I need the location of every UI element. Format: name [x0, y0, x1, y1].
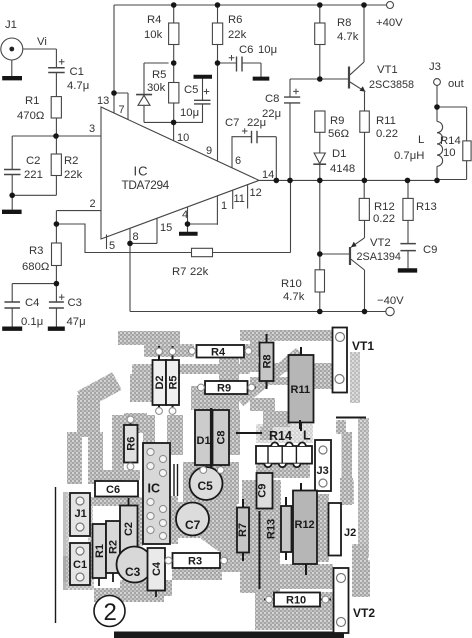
wire trace R7 C9 R13 zone — [242, 480, 281, 552]
node rail VT1 — [361, 2, 367, 8]
svg-text:R14: R14 — [440, 135, 461, 147]
svg-text:47μ: 47μ — [67, 316, 86, 328]
wire trace left strip b — [88, 432, 103, 484]
node out L — [434, 178, 440, 184]
wire trace left edge J1 — [63, 492, 69, 582]
svg-text:R7: R7 — [237, 523, 249, 537]
wire rail drop to pins 13/7 — [113, 5, 115, 93]
wire trace below coil — [256, 464, 310, 478]
wire trace left of R8 top — [250, 340, 261, 357]
resistor R2 — [12, 136, 61, 195]
svg-text:IC: IC — [134, 164, 149, 179]
figure number 2 — [94, 596, 125, 627]
wire VT1 base — [290, 78, 348, 80]
capacitor C6 pcb — [95, 481, 138, 497]
resistor R3 — [52, 224, 62, 284]
terminal +40V — [387, 2, 394, 9]
wire trace R12 bottom to R10 — [280, 564, 333, 589]
PCB components — [70, 328, 375, 634]
terminal -40V — [386, 307, 394, 315]
capacitor C1 — [48, 59, 64, 97]
svg-text:C8: C8 — [216, 430, 228, 444]
transistor VT1 — [349, 5, 365, 111]
wire pcb ground bar — [114, 632, 344, 638]
svg-text:10: 10 — [443, 147, 456, 159]
svg-text:D1: D1 — [332, 148, 346, 160]
resistor R4 — [169, 5, 179, 63]
transistor VT2 — [350, 220, 365, 311]
svg-text:J2: J2 — [344, 527, 356, 539]
svg-text:J3: J3 — [317, 465, 329, 477]
svg-text:R3: R3 — [29, 245, 43, 257]
svg-text:R13: R13 — [266, 519, 278, 539]
svg-text:C1: C1 — [73, 559, 87, 571]
svg-text:R1: R1 — [94, 544, 106, 558]
wire trace R4 right end — [240, 344, 258, 365]
resistor R10 — [315, 254, 324, 312]
wire trace band3 R8 R11 — [250, 377, 332, 385]
pin number labels — [89, 95, 274, 252]
svg-text:R12: R12 — [374, 201, 395, 213]
wire trace IC D1 gap — [167, 415, 183, 455]
resistor R13 pcb — [266, 497, 292, 560]
svg-text:R12: R12 — [295, 519, 315, 531]
resistor R7 — [192, 180, 291, 256]
transistor VT2 pcb — [334, 568, 376, 633]
capacitor C8 pcb — [211, 408, 229, 467]
pin5 stub — [106, 235, 108, 250]
wire trace right strip widen — [352, 544, 368, 570]
node pin2 — [54, 221, 60, 227]
connector J3 pcb — [315, 440, 331, 491]
wire pcb R1 lead — [98, 578, 100, 586]
node rail R4 — [171, 2, 177, 8]
resistor R7 pcb — [237, 499, 249, 561]
svg-text:1: 1 — [221, 200, 227, 212]
wire pcb border left — [55, 487, 57, 623]
node R8-R9 — [317, 76, 323, 82]
diode D2 pcb — [153, 346, 167, 414]
svg-text:22μ: 22μ — [262, 108, 281, 120]
svg-text:J1: J1 — [5, 19, 17, 31]
svg-text:VT2: VT2 — [353, 606, 375, 620]
resistor R14 — [437, 107, 471, 180]
wire pin2 — [56, 211, 101, 224]
svg-text:2SA1394: 2SA1394 — [357, 251, 401, 263]
svg-text:D2: D2 — [154, 375, 166, 389]
svg-text:0.7μH: 0.7μH — [394, 150, 424, 162]
svg-text:12: 12 — [250, 187, 262, 199]
wire trace bottom left band — [94, 588, 164, 602]
wire trace right strip — [358, 418, 369, 558]
wire pcb IC right lead a — [173, 464, 175, 496]
svg-text:13: 13 — [97, 95, 109, 107]
svg-text:4.7μ: 4.7μ — [67, 80, 89, 92]
wire pcb left vertical — [259, 511, 261, 589]
svg-text:0.22: 0.22 — [373, 213, 395, 225]
wire pin3 node left — [12, 136, 56, 170]
wire output node pin14 — [259, 179, 437, 181]
svg-text:R2: R2 — [108, 540, 120, 554]
node out C8 — [287, 178, 293, 184]
svg-text:0.1μ: 0.1μ — [21, 316, 43, 328]
wire trace left arm — [77, 395, 100, 437]
IC pcb — [143, 443, 170, 544]
wire trace right of J3 — [342, 432, 353, 505]
svg-text:R4: R4 — [147, 14, 161, 26]
wire trace VT2 top right — [352, 560, 370, 597]
svg-text:C9: C9 — [423, 244, 437, 256]
node pin10 — [171, 120, 177, 126]
wire trace C7 diag to R3 — [205, 533, 240, 558]
svg-text:C6: C6 — [239, 44, 253, 56]
wire trace bottom left corner — [63, 556, 94, 590]
inductor L pcb — [256, 420, 312, 467]
capacitor C9 pcb — [257, 473, 273, 509]
wire trace below C3 C4 — [120, 580, 172, 596]
svg-text:10μ: 10μ — [258, 44, 277, 56]
resistor R12 — [359, 180, 369, 220]
wire trace toward R14 — [263, 411, 290, 427]
svg-text:4148: 4148 — [330, 163, 355, 175]
capacitor C7 pcb — [176, 503, 209, 536]
wire trace D2 R5 top patch — [144, 344, 194, 357]
svg-text:0.22: 0.22 — [376, 128, 398, 140]
resistor R6 — [212, 5, 222, 161]
wire trace below R3 — [172, 568, 222, 580]
capacitor C5 — [194, 77, 213, 123]
wire pcb IC right lead b — [177, 464, 179, 496]
wire trace above D1 C8 — [191, 386, 239, 410]
resistor R12 pcb — [293, 483, 317, 575]
svg-text:R4: R4 — [211, 347, 226, 359]
node rail R6 — [215, 2, 221, 8]
node pin13 — [111, 90, 117, 96]
svg-text:R7: R7 — [172, 266, 186, 278]
resistor R6 pcb — [124, 416, 138, 470]
lead pads — [127, 348, 329, 603]
svg-text:470Ω: 470Ω — [17, 110, 44, 122]
capacitor C4 — [2, 284, 56, 329]
svg-text:C7: C7 — [185, 518, 201, 532]
svg-text:C9: C9 — [257, 484, 269, 498]
svg-text:R6: R6 — [228, 14, 242, 26]
wire trace band2 R8 R11 — [250, 363, 332, 372]
node pin3 — [53, 133, 59, 139]
svg-text:−40V: −40V — [377, 295, 404, 307]
capacitor C2 pcb — [120, 506, 138, 554]
svg-text:22k: 22k — [228, 29, 247, 41]
svg-text:2SC3858: 2SC3858 — [369, 79, 414, 91]
capacitor C1 pcb — [70, 543, 90, 585]
node C2 gnd — [9, 193, 15, 199]
resistor R3 pcb — [165, 553, 228, 568]
wire trace staircase 1 — [240, 352, 300, 402]
wire trace right of J2 — [341, 480, 354, 504]
svg-text:IC: IC — [148, 482, 161, 496]
wire top rail +40V — [114, 4, 386, 6]
svg-text:11: 11 — [234, 193, 245, 205]
node R3-C3 — [54, 281, 60, 287]
node out R13 — [405, 178, 411, 184]
wire trace left strip x112 — [112, 415, 124, 482]
svg-text:4: 4 — [182, 209, 188, 221]
wire trace left arm elbow — [82, 381, 117, 400]
svg-text:C2: C2 — [26, 155, 40, 167]
node J3 — [434, 104, 440, 110]
resistor R4 pcb — [188, 345, 252, 359]
wire trace R11 to J3 — [336, 420, 346, 434]
node out D1 — [317, 178, 323, 184]
svg-text:7: 7 — [119, 104, 125, 116]
capacitor C6 — [218, 55, 270, 79]
wire trace C7 to R7 zone — [216, 506, 237, 550]
wire trace around C7 — [174, 502, 237, 538]
wire -40V rail — [130, 311, 386, 313]
resistor R8 — [315, 5, 325, 79]
wire pcb coil left link — [236, 432, 262, 434]
node R4-R5 — [171, 60, 177, 66]
wire trace right of IC — [170, 496, 178, 544]
wire trace staircase 2 — [246, 366, 282, 398]
wire trace band through D2 R5 — [132, 364, 250, 374]
wire trace D2 to R6 blob — [130, 374, 152, 402]
svg-text:R14: R14 — [269, 429, 292, 443]
pin4 stub and ground — [188, 207, 218, 232]
wire pcb C8 lead — [220, 465, 222, 470]
feedback wire to R7 — [56, 224, 191, 253]
node R6-C6 — [215, 60, 221, 66]
svg-text:C3: C3 — [68, 297, 82, 309]
svg-text:C1: C1 — [70, 66, 84, 78]
pin1 pin11 pin12 stubs — [217, 185, 247, 225]
node rail VT2 — [362, 309, 368, 315]
wire pin3 — [56, 135, 101, 137]
svg-text:R1: R1 — [25, 95, 39, 107]
svg-text:J1: J1 — [75, 508, 87, 520]
connector J2 pcb — [329, 503, 357, 556]
resistor R1 — [51, 97, 61, 136]
svg-text:VT1: VT1 — [352, 339, 374, 353]
wire mid to VT2 base — [320, 180, 349, 254]
svg-text:R5: R5 — [152, 69, 166, 81]
svg-text:4.7k: 4.7k — [283, 291, 305, 303]
wire trace right of J3 low — [340, 478, 353, 502]
resistor R11 pcb — [289, 347, 314, 431]
wire pin10 net — [144, 122, 203, 140]
capacitor C2 — [2, 170, 22, 212]
wire trace around C5 — [183, 462, 239, 504]
svg-text:22k: 22k — [64, 169, 83, 181]
inductor L — [437, 107, 443, 180]
svg-text:C4: C4 — [151, 561, 163, 576]
wire trace bottom right band — [255, 592, 333, 630]
capacitor C8 — [284, 79, 300, 180]
wire trace right of C8 — [229, 410, 240, 455]
svg-text:680Ω: 680Ω — [22, 261, 49, 273]
node rail R10 — [317, 309, 323, 315]
wire trace C2 IC gap — [136, 500, 143, 546]
svg-text:R2: R2 — [64, 155, 78, 167]
wire trace below C6 — [88, 497, 142, 506]
speckle overlay — [66, 328, 402, 632]
svg-text:6: 6 — [235, 155, 241, 167]
svg-text:3: 3 — [89, 123, 95, 135]
wire trace above C6 — [90, 470, 140, 480]
wire trace IC top strip — [143, 415, 155, 443]
wire pcb D1 lead — [202, 465, 204, 470]
pin6 stub / capacitor C7 — [232, 128, 276, 180]
svg-text:C6: C6 — [106, 484, 120, 496]
resistor R9 — [315, 111, 325, 153]
svg-text:30k: 30k — [147, 82, 166, 94]
wire trace J1 R1 gap — [88, 498, 93, 582]
svg-text:8: 8 — [133, 231, 139, 243]
svg-text:R5: R5 — [168, 375, 180, 389]
resistor R11 — [360, 111, 370, 180]
diode D1 — [314, 153, 325, 164]
connector J1 pcb — [70, 493, 90, 536]
svg-text:J3: J3 — [429, 61, 441, 73]
svg-text:R9: R9 — [330, 115, 344, 127]
wire pcb C2 lead — [128, 498, 130, 506]
svg-text:R8: R8 — [337, 17, 351, 29]
svg-text:R9: R9 — [217, 383, 231, 395]
wire R4 bottom to D2 branch — [144, 62, 169, 64]
connector J3 — [434, 79, 441, 107]
svg-text:C8: C8 — [265, 93, 279, 105]
wire pcb VT1 link — [336, 417, 366, 419]
wire trace left strip a — [67, 432, 82, 484]
wire trace R12 J2 gap — [318, 494, 329, 562]
wire pin13/7 link — [114, 93, 128, 120]
svg-text:R11: R11 — [291, 384, 311, 396]
resistor R9 pcb — [197, 381, 256, 395]
capacitor C5 pcb — [190, 467, 223, 500]
wire pin8 to -40V rail — [129, 243, 131, 311]
pin8 pin15 stubs — [130, 218, 157, 243]
svg-text:C7: C7 — [225, 117, 239, 129]
node rail R8 — [317, 2, 323, 8]
svg-text:15: 15 — [160, 222, 172, 234]
wire trace below R13 R7 — [240, 552, 280, 593]
svg-text:4.7k: 4.7k — [337, 31, 359, 43]
capacitor C9 — [398, 244, 417, 271]
node out C7 — [274, 178, 280, 184]
wire trace below R8 band — [250, 398, 275, 411]
wire trace R6 to IC — [124, 413, 147, 433]
svg-text:2: 2 — [104, 599, 117, 626]
transistor VT1 pcb — [333, 328, 375, 393]
svg-text:22k: 22k — [190, 266, 209, 278]
node pin4 — [185, 221, 191, 227]
svg-text:56Ω: 56Ω — [328, 128, 349, 140]
svg-text:R6: R6 — [125, 437, 137, 451]
wire trace R3 to R7 — [221, 552, 240, 572]
capacitor C3 pcb — [117, 547, 153, 583]
diode D1 pcb — [195, 410, 212, 465]
PCB black wires — [56, 418, 367, 624]
resistor R5 pcb — [166, 346, 180, 414]
svg-text:C3: C3 — [125, 565, 141, 579]
wire trace right of VT1 blob — [350, 352, 360, 403]
wire trace R14 corner — [260, 427, 273, 440]
wire trace R14 label zone — [256, 424, 313, 443]
svg-text:10μ: 10μ — [180, 107, 199, 119]
wire trace top left band — [118, 331, 180, 345]
svg-text:R8: R8 — [262, 354, 274, 368]
IC pads — [147, 448, 167, 539]
svg-text:221: 221 — [24, 169, 43, 181]
wire pcb C4 lead — [155, 591, 157, 598]
svg-text:14: 14 — [262, 169, 274, 181]
svg-text:10: 10 — [177, 132, 189, 144]
svg-text:R10: R10 — [281, 278, 302, 290]
svg-text:9: 9 — [206, 145, 212, 157]
node VT2 base — [317, 251, 323, 257]
resistor R5 — [169, 63, 179, 122]
svg-text:C2: C2 — [123, 522, 135, 536]
resistor R1 pcb — [93, 524, 107, 578]
svg-text:R13: R13 — [416, 201, 437, 213]
svg-text:R3: R3 — [188, 556, 202, 568]
svg-text:C4: C4 — [25, 297, 39, 309]
wire trace below D1 C8 — [191, 465, 235, 477]
resistor R2 pcb — [106, 521, 120, 573]
svg-text:+40V: +40V — [376, 17, 403, 29]
resistor R10 pcb — [264, 593, 331, 607]
wire trace top band to VT1 — [240, 330, 332, 341]
svg-text:VT2: VT2 — [370, 237, 391, 249]
connector J1 — [1, 38, 57, 78]
svg-text:C5: C5 — [198, 479, 214, 493]
svg-text:L: L — [418, 134, 424, 146]
diode D2 — [143, 63, 145, 122]
svg-text:Vi: Vi — [37, 36, 47, 48]
wire pcb R2 lead — [112, 573, 114, 582]
resistor R13 — [403, 180, 413, 243]
resistor R8 pcb — [260, 334, 274, 389]
svg-text:R11: R11 — [376, 115, 396, 127]
svg-text:R10: R10 — [286, 595, 306, 607]
svg-text:5: 5 — [109, 240, 115, 252]
schematic labels — [5, 14, 465, 328]
capacitor C4 pcb — [148, 548, 166, 591]
svg-text:2: 2 — [90, 198, 96, 210]
wire trace right of R4 — [219, 354, 239, 386]
svg-text:L: L — [303, 429, 311, 443]
capacitor C3 — [48, 284, 65, 329]
op-amp IC TDA7294 — [101, 107, 259, 239]
svg-text:out: out — [448, 78, 465, 90]
svg-text:VT1: VT1 — [377, 64, 398, 76]
svg-text:D1: D1 — [197, 435, 211, 447]
svg-text:TDA7294: TDA7294 — [122, 178, 170, 192]
node out R11 — [362, 178, 368, 184]
svg-text:10k: 10k — [144, 29, 163, 41]
svg-text:C5: C5 — [184, 84, 198, 96]
wire trace right of R11 — [313, 363, 332, 389]
node pin8 — [127, 241, 133, 247]
